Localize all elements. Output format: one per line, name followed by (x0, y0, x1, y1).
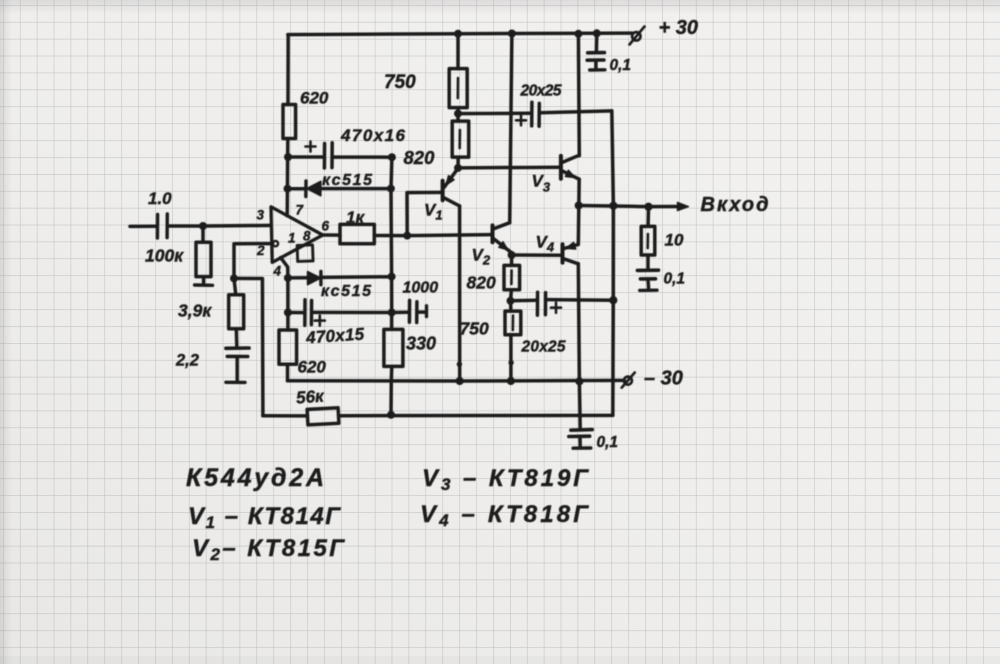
resistor 10 chain (641, 207, 655, 269)
node 750 top rail (454, 30, 462, 38)
node V3 collector rail (574, 30, 582, 38)
node blob on V1 collector line (457, 362, 462, 367)
wire top 20x25 bootstrap (458, 111, 612, 114)
wire op-amp output with 1k (323, 235, 492, 236)
svg-text:0,1: 0,1 (610, 57, 632, 74)
svg-text:0,1: 0,1 (664, 271, 686, 288)
resistor 820 (top) box (452, 121, 469, 157)
svg-text:820: 820 (404, 147, 436, 168)
wire left rail (620 chain to op-amp pin 7) (287, 35, 288, 216)
node V1 emitter junction (454, 164, 462, 172)
svg-text:4: 4 (273, 264, 282, 279)
transistor V3 KT819 (561, 155, 579, 179)
svg-text:3: 3 (257, 208, 265, 223)
svg-text:56к: 56к (295, 386, 325, 407)
node bootstrap bottom right (609, 296, 617, 304)
node 470x15 right (388, 309, 396, 317)
resistor 750 (bottom) chain (505, 301, 521, 381)
svg-text:кс515: кс515 (322, 172, 373, 189)
node V2 collector rail (508, 30, 516, 38)
wire V2 emitter to V4 base (512, 253, 563, 257)
transistor V2 KT815 (493, 223, 512, 253)
transistor V1 KT814 (443, 168, 460, 206)
capacitor C 1.0 input (157, 214, 167, 238)
svg-text:820: 820 (467, 273, 496, 293)
terminal +30 (630, 27, 645, 45)
svg-text:+ 30: + 30 (659, 17, 698, 39)
wire 470x15 branch (288, 311, 392, 315)
resistor 3.9k box (229, 295, 244, 329)
transistor V4 KT818 (563, 242, 579, 263)
node V1 collector rail (456, 377, 464, 385)
node 470x16 right (388, 153, 396, 161)
wire V3 collector vertical (577, 34, 581, 156)
polarity plus of 20x25 top (516, 115, 526, 125)
svg-text:0,1: 0,1 (597, 434, 619, 451)
polarity plus of 470x16 (306, 142, 316, 152)
resistor 820 (bottom) chain (504, 255, 520, 301)
node bootstrap bottom junction (507, 297, 515, 305)
wire pin4 to 620 bottom (286, 278, 290, 381)
svg-text:750: 750 (460, 319, 489, 339)
wire V3 emitter to V4 emitter (577, 179, 581, 244)
resistor 330 box (384, 329, 403, 366)
node output 10-ohm junction (644, 203, 652, 211)
capacitor C 1000 (392, 300, 427, 322)
node blob on 750 bottom line (508, 360, 513, 365)
wire input to pin 3 (130, 225, 271, 226)
resistor 100k chain (195, 226, 213, 285)
wire V1 base (407, 192, 442, 235)
diode KC515 (upper zener) (306, 181, 321, 197)
svg-text:кс515: кс515 (321, 283, 372, 300)
wire V3 base (458, 165, 561, 169)
node pin2 junction (230, 274, 238, 282)
node 470x15 left (284, 309, 292, 317)
capacitor C 470x15 plates (305, 300, 312, 326)
svg-text:10: 10 (665, 231, 684, 250)
resistor 56k box (307, 408, 339, 425)
svg-text:1000: 1000 (403, 280, 439, 297)
node 750 bottom rail (507, 377, 515, 385)
node V2 emitter junction (508, 251, 516, 259)
node V4 collector rail (575, 377, 583, 385)
node bootstrap top junction (454, 110, 462, 118)
svg-text:2: 2 (256, 243, 265, 258)
capacitor C 20x25 top plates (532, 102, 540, 126)
op-amp pin 2 bubble (273, 241, 278, 246)
svg-text:6: 6 (322, 219, 330, 234)
node 1k/V1 base junction (403, 232, 411, 240)
wire 470x16 capacitor branch (288, 155, 392, 159)
node feedback/330 junction (387, 411, 395, 419)
capacitor C 0.1 output (637, 270, 658, 290)
wire bottom 20x25 bootstrap (511, 300, 614, 301)
resistor 1k box (340, 224, 374, 243)
svg-text:Вкход: Вкход (701, 194, 769, 216)
svg-text:100к: 100к (145, 246, 184, 266)
resistor 750 (top) box (449, 69, 467, 108)
wire feedback bottom (263, 414, 613, 418)
arrow output terminal (678, 202, 689, 210)
resistor 620 (bottom) box (279, 330, 297, 364)
wire bootstrap vertical (612, 111, 614, 416)
svg-text:20x25: 20x25 (521, 339, 566, 356)
diode KC515 (lower zener) (308, 271, 321, 284)
resistor 100k box (196, 242, 211, 276)
wire output (579, 206, 680, 207)
op-amp U1 K544UD2A triangle (271, 207, 323, 263)
wire V2 collector vertical (510, 34, 512, 223)
node 0.1 top rail (593, 29, 601, 37)
wire pin 2 net (234, 244, 273, 416)
polarity plus of 470x15 (315, 316, 325, 326)
node zener upper right (387, 185, 395, 193)
svg-text:1.0: 1.0 (148, 189, 172, 208)
svg-text:620: 620 (298, 358, 327, 377)
terminal -30 (622, 373, 635, 388)
wire upper zener branch (288, 187, 391, 191)
capacitor C 0.1 top rail (587, 33, 605, 70)
svg-text:470x16: 470x16 (340, 126, 406, 145)
wire op-amp pin 4 (281, 258, 288, 278)
capacitor C 470x16 plates (324, 143, 332, 168)
capacitor C 0.1 bottom (569, 430, 593, 449)
svg-text:20x25: 20x25 (520, 83, 562, 100)
wire 750/820 top chain (456, 34, 460, 168)
node output bootstrap junction (609, 202, 617, 210)
wire -30 rail (288, 379, 625, 383)
node pin7/470x16 junction (284, 153, 292, 161)
svg-text:620: 620 (300, 89, 329, 108)
wire zener rail vertical (389, 157, 393, 415)
svg-text:3,9к: 3,9к (178, 301, 212, 321)
node pin4 junction (284, 274, 292, 282)
wire V1 collector down (458, 206, 462, 381)
svg-text:330: 330 (406, 334, 436, 354)
wire +30 top rail (288, 33, 632, 35)
resistor 3.9k chain (234, 278, 237, 346)
svg-text:2,2: 2,2 (175, 352, 199, 370)
svg-text:– 30: – 30 (644, 368, 683, 390)
svg-text:1к: 1к (346, 208, 365, 227)
capacitor C 20x25 bottom plates (537, 292, 545, 315)
node zener lower right (388, 273, 396, 281)
node zener upper left (284, 185, 292, 193)
node output left junction (575, 201, 583, 209)
svg-text:750: 750 (384, 72, 416, 93)
resistor 620 (top) (283, 105, 296, 139)
op-amp offset null box pins 1,8 (297, 245, 313, 262)
capacitor C 2.2 (226, 348, 249, 382)
polarity plus of 20x25 bottom (551, 303, 561, 313)
wire V4 collector down (578, 264, 580, 429)
svg-text:8: 8 (303, 229, 311, 244)
node input junction (199, 222, 207, 230)
wire lower zener branch (288, 277, 392, 278)
svg-text:1: 1 (288, 231, 296, 246)
